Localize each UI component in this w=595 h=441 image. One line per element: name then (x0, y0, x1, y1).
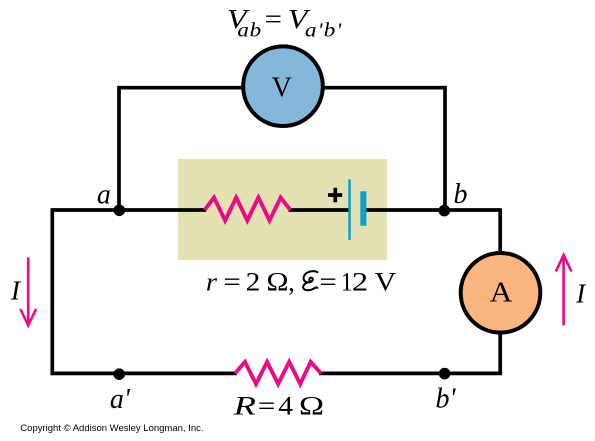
svg-text:2: 2 (352, 268, 368, 296)
svg-text:V: V (375, 268, 397, 297)
svg-text:=: = (265, 4, 282, 34)
battery short plate (negative) (360, 191, 366, 225)
wire left vertical (50, 208, 54, 375)
svg-text:A: A (490, 278, 513, 308)
current arrow left pointing down (20, 258, 36, 326)
svg-text:a'b': a'b' (305, 19, 342, 41)
svg-text:b': b' (436, 384, 457, 415)
svg-text:a: a (97, 180, 111, 211)
voltmeter circle (243, 46, 323, 126)
label R = 4 ohm (232, 391, 324, 421)
battery highlight box (178, 159, 387, 260)
label Vab = Va'b' (227, 4, 342, 41)
wire bottom left segment (52, 372, 237, 376)
svg-text:R: R (232, 391, 255, 420)
resistor R (235, 362, 321, 384)
svg-text:2: 2 (246, 268, 261, 297)
wire top (voltmeter branch) (119, 86, 445, 90)
svg-text:Copyright © Addison Wesley Lon: Copyright © Addison Wesley Longman, Inc. (20, 423, 203, 434)
node a' (113, 368, 125, 380)
resistor r (internal resistance) (205, 198, 291, 221)
svg-text:Ω: Ω (266, 268, 288, 297)
svg-text:Ω: Ω (299, 391, 324, 421)
wire left riser node a to voltmeter branch (117, 86, 121, 210)
node b' (439, 368, 451, 380)
label = 12 V (emf value) (319, 268, 396, 297)
wire between resistor r and battery plate (289, 208, 350, 212)
svg-text:=: = (223, 268, 240, 296)
node b (439, 205, 451, 217)
ammeter circle (461, 253, 541, 333)
current arrow right pointing up (556, 255, 572, 326)
label r = 2 ohm (206, 267, 295, 297)
wire middle left segment (a to resistor r) (52, 208, 206, 212)
svg-text:=: = (319, 268, 336, 296)
wire right corner down to ammeter (498, 208, 502, 258)
svg-text:r: r (206, 267, 218, 296)
battery plus sign (328, 188, 342, 202)
svg-text:V: V (272, 73, 292, 104)
svg-text:=: = (258, 393, 275, 421)
svg-text:4: 4 (278, 392, 293, 421)
svg-text:a': a' (110, 384, 131, 415)
svg-text:b: b (454, 179, 468, 210)
wire right of battery to corner (364, 208, 501, 212)
wire bottom right segment (319, 372, 502, 376)
svg-text:ab: ab (237, 19, 261, 41)
wire right riser node b to voltmeter branch (443, 86, 447, 210)
wire ammeter down to bottom corner (498, 328, 502, 373)
battery long plate (positive) (348, 179, 351, 240)
script capital E (emf symbol) (303, 271, 317, 290)
node a (114, 205, 126, 217)
svg-text:,: , (288, 267, 295, 296)
svg-text:1: 1 (341, 268, 353, 296)
